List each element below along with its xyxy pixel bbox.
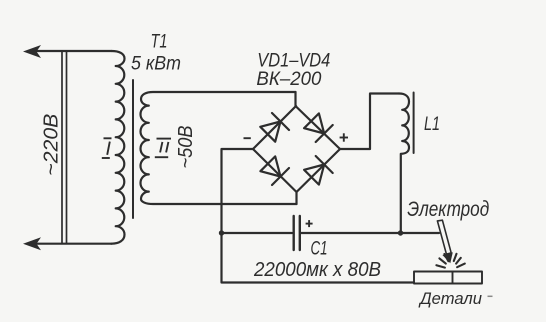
svg-text:~220В: ~220В [40,114,63,176]
svg-text:~50В: ~50В [175,126,197,169]
svg-text:Т1: Т1 [151,32,168,53]
svg-text:Электрод: Электрод [407,198,489,221]
svg-text:С1: С1 [311,239,328,260]
svg-text:Детали: Детали [418,289,482,308]
svg-text:L1: L1 [424,114,440,135]
svg-text:5 кВт: 5 кВт [131,53,181,75]
svg-text:22000мк х 80В: 22000мк х 80В [253,259,381,281]
svg-text:ВК–200: ВК–200 [256,68,321,90]
